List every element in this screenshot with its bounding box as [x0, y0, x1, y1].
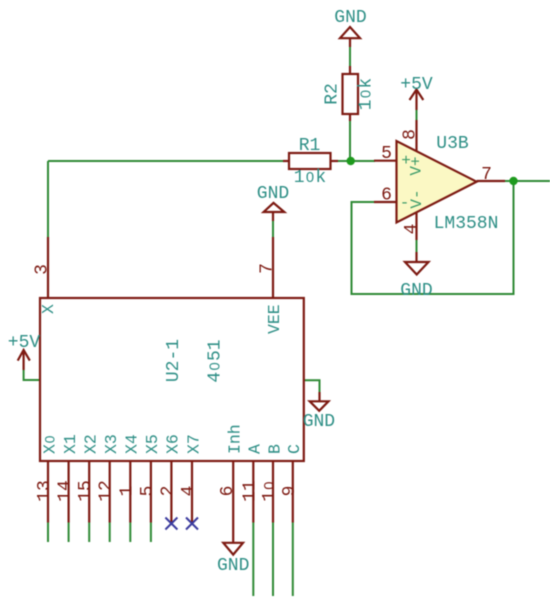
- svg-text:X2: X2: [82, 434, 101, 454]
- svg-text:13: 13: [35, 480, 55, 502]
- svg-text:X7: X7: [184, 434, 203, 454]
- svg-text:1: 1: [357, 99, 377, 110]
- svg-text:LM358N: LM358N: [434, 214, 499, 234]
- svg-text:U3B: U3B: [436, 134, 469, 154]
- svg-text:GND: GND: [217, 556, 249, 576]
- svg-text:X6: X6: [164, 434, 183, 454]
- svg-text:1: 1: [117, 486, 137, 497]
- svg-text:GND: GND: [257, 184, 289, 204]
- svg-text:X5: X5: [143, 434, 162, 454]
- svg-text:1: 1: [260, 491, 280, 502]
- svg-text:0: 0: [208, 362, 224, 370]
- svg-text:X4: X4: [123, 434, 142, 454]
- svg-text:12: 12: [97, 480, 117, 502]
- svg-text:GND: GND: [334, 8, 366, 28]
- svg-text:VEE: VEE: [265, 304, 284, 334]
- svg-text:6: 6: [381, 186, 392, 206]
- svg-text:11: 11: [240, 480, 260, 502]
- svg-text:4: 4: [402, 224, 422, 235]
- svg-text:3: 3: [33, 264, 53, 275]
- svg-text:8: 8: [401, 129, 421, 140]
- svg-text:4: 4: [179, 486, 199, 497]
- svg-text:Inh: Inh: [226, 424, 245, 454]
- svg-text:0: 0: [262, 481, 278, 489]
- svg-text:B: B: [265, 444, 284, 454]
- svg-text:A: A: [246, 444, 265, 454]
- svg-text:5: 5: [381, 144, 392, 164]
- svg-text:0: 0: [306, 170, 314, 186]
- svg-text:+5V: +5V: [400, 75, 433, 95]
- svg-text:6: 6: [218, 486, 238, 497]
- svg-text:1: 1: [294, 168, 305, 188]
- svg-text:R2: R2: [322, 83, 342, 105]
- svg-text:R1: R1: [299, 136, 321, 156]
- svg-text:14: 14: [56, 480, 76, 502]
- svg-text:5: 5: [138, 486, 158, 497]
- svg-text:X1: X1: [61, 434, 80, 454]
- svg-text:X: X: [40, 444, 59, 454]
- svg-text:15: 15: [76, 480, 96, 502]
- svg-text:+5V: +5V: [8, 333, 41, 353]
- svg-text:k: k: [357, 78, 377, 89]
- svg-text:5: 5: [206, 350, 226, 361]
- svg-text:2: 2: [158, 486, 178, 497]
- svg-text:GND: GND: [400, 281, 432, 301]
- svg-text:C: C: [285, 444, 304, 454]
- svg-text:9: 9: [280, 486, 300, 497]
- svg-text:V-: V-: [408, 189, 426, 208]
- svg-text:k: k: [315, 168, 326, 188]
- svg-text:V+: V+: [407, 156, 425, 175]
- svg-text:4: 4: [206, 372, 226, 383]
- svg-text:1: 1: [206, 339, 226, 350]
- svg-text:GND: GND: [303, 412, 335, 432]
- svg-text:7: 7: [481, 165, 492, 185]
- svg-text:7: 7: [258, 263, 278, 274]
- svg-text:X: X: [39, 304, 58, 314]
- svg-text:U2-1: U2-1: [164, 339, 184, 382]
- svg-text:0: 0: [42, 435, 57, 443]
- svg-text:0: 0: [359, 90, 375, 98]
- svg-text:X3: X3: [102, 434, 121, 454]
